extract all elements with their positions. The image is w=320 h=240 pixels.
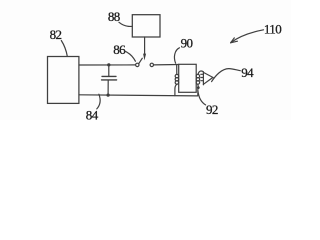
switch 86: blade — [139, 58, 142, 63]
leader for label 90 — [174, 48, 179, 63]
wire: bottom rail from box 82 to transformer — [79, 95, 197, 96]
svg-text:82: 82 — [50, 27, 62, 42]
node: capacitor top junction — [107, 63, 110, 66]
control arrow from box 88 to switch gap — [143, 37, 146, 60]
svg-text:110: 110 — [264, 21, 281, 36]
svg-text:90: 90 — [181, 36, 193, 51]
leader for label 82 — [61, 41, 67, 57]
leader for label 84 — [97, 94, 100, 109]
switch 86: right contact — [150, 63, 153, 66]
wire: switch right contact to transformer — [154, 64, 179, 66]
switch 86: left contact — [136, 63, 139, 66]
spark plug 94 — [201, 72, 213, 85]
svg-text:94: 94 — [241, 65, 254, 80]
leader arrow for label 110 — [231, 30, 264, 43]
primary winding 90 — [175, 65, 179, 95]
box 88 (controller) — [132, 15, 160, 37]
leader for label 88 — [119, 22, 132, 26]
leader for label 86 — [125, 51, 136, 61]
wire: top rail from box 82 to switch left contact — [79, 64, 136, 66]
svg-text:88: 88 — [108, 9, 120, 24]
capacitor 84 — [102, 66, 117, 95]
box 82 — [48, 57, 79, 104]
leader for label 94 — [212, 69, 241, 82]
svg-text:86: 86 — [113, 42, 126, 57]
transformer core (ignition coil) — [179, 64, 197, 92]
secondary winding 92 — [196, 71, 203, 96]
leader for label 92 — [198, 91, 206, 105]
svg-text:92: 92 — [206, 102, 218, 117]
node: capacitor bottom junction — [106, 93, 109, 96]
